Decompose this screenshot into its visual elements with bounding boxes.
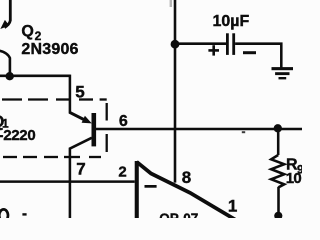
dashed enclosure around Q1 : top edge [2,98,107,100]
svg-text:2: 2 [118,164,126,181]
partial glyph O (cut text, bottom-left) [0,209,8,221]
wire: long vertical from top to op-amp pin 8 [174,0,177,183]
svg-text:7: 7 [76,159,85,178]
dashed enclosure : bottom edge [3,156,101,158]
node B : capacitor tap junction dot [171,40,180,49]
svg-text:10µF: 10µF [213,13,250,30]
svg-text:1: 1 [228,197,237,216]
svg-text:8: 8 [182,168,191,187]
svg-text:10: 10 [286,170,302,187]
wire: inverting input (pin 2) [0,180,135,183]
node C : resistor tap junction dot on base rail [274,124,282,132]
wire: pin 5 drop into Q1 emitter [69,75,72,114]
faint smudge at top of long vertical [170,0,172,7]
op-amp U1 OP-07 [135,161,235,220]
transistor Q1 (in dashed can) [70,113,96,218]
stray tick mark below rail [242,131,245,133]
svg-text:6: 6 [119,113,128,130]
wire: left rail to pin-5 corner [0,75,71,78]
node D : output junction dot (cut at bottom) [274,212,282,220]
polarity - [243,51,256,54]
svg-text:2N3906: 2N3906 [21,41,78,58]
svg-text:Q: Q [21,23,33,40]
ground [272,67,294,79]
wire: capacitor to ground [235,44,281,68]
svg-text:-2220: -2220 [0,127,35,144]
svg-text:OP-07: OP-07 [159,211,198,218]
polarity + [208,45,219,55]
wire: to capacitor + plate [175,42,226,45]
stray dash mark [22,213,26,215]
dashed enclosure : right edge [106,103,108,152]
capacitor C1 10uF [226,33,235,55]
node A : Q2 collector junction dot [6,72,14,80]
transistor Q2 (2N3906, partially cut at left edge) [0,0,10,74]
wire: base rail (pin 6) from Q1 to right edge [96,128,302,131]
resistor R (zigzag) [271,130,284,214]
